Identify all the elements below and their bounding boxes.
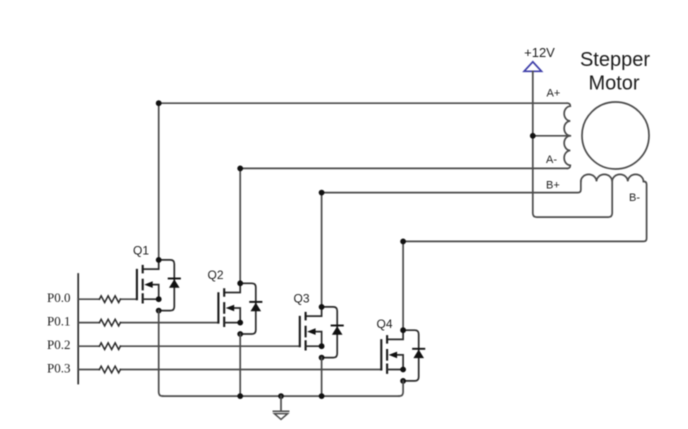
inductor winding A (stepper phase A) bbox=[564, 103, 570, 168]
wire: Q4 source to ground rail bbox=[399, 381, 403, 396]
wire: ground stub bbox=[280, 396, 282, 410]
transistor Q1 bbox=[137, 257, 180, 314]
svg-text:P0.3: P0.3 bbox=[47, 360, 70, 375]
wire: Q2 source to ground rail bbox=[239, 334, 241, 396]
node: +12V to A centre tap junction bbox=[530, 133, 536, 139]
node: B+ corner junction bbox=[319, 190, 325, 196]
node: A- corner junction bbox=[237, 166, 243, 172]
wire: P0.3 row bbox=[78, 369, 381, 371]
svg-text:B-: B- bbox=[629, 192, 640, 204]
svg-text:+12V: +12V bbox=[524, 45, 555, 60]
stepper motor body bbox=[582, 102, 649, 169]
inductor winding B (stepper phase B) bbox=[581, 174, 644, 181]
wire: Q1 source to ground rail bbox=[159, 311, 163, 397]
node: ground stub junction bbox=[278, 393, 284, 399]
wire: P0.1 row bbox=[78, 322, 218, 324]
svg-text:Q3: Q3 bbox=[294, 291, 310, 305]
+12V net wire: down, right along rail, up to winding B centre tap bbox=[533, 72, 612, 218]
+12V power arrow bbox=[524, 62, 541, 72]
ground bbox=[273, 411, 288, 419]
resistor R4 bbox=[99, 366, 120, 373]
svg-text:P0.0: P0.0 bbox=[47, 290, 70, 305]
svg-text:Q2: Q2 bbox=[208, 268, 224, 282]
node: A+ corner junction bbox=[156, 100, 162, 106]
svg-text:P0.1: P0.1 bbox=[47, 313, 70, 328]
wire: Q3 drain to B+ bbox=[322, 181, 581, 307]
svg-text:Stepper: Stepper bbox=[580, 49, 650, 71]
svg-text:Motor: Motor bbox=[588, 72, 639, 94]
resistor R3 bbox=[99, 343, 120, 350]
node: Q3 source junction bbox=[319, 393, 325, 399]
wire: P0.2 row bbox=[78, 345, 300, 347]
port bus bar P0 bbox=[77, 274, 79, 384]
svg-text:A-: A- bbox=[546, 154, 557, 166]
svg-text:A+: A+ bbox=[547, 88, 561, 100]
wire: Q3 source to ground rail bbox=[321, 358, 323, 397]
wire: ground rail bbox=[163, 395, 399, 397]
node: Q2 source junction bbox=[237, 393, 243, 399]
wire: B- down and left to Q4 drain bbox=[403, 181, 646, 330]
svg-text:B+: B+ bbox=[546, 180, 560, 192]
transistor Q4 bbox=[381, 327, 424, 384]
node: B- corner junction bbox=[400, 239, 406, 245]
wire: P0.0 row bbox=[78, 298, 137, 300]
svg-text:Q1: Q1 bbox=[133, 244, 149, 258]
wire: Q1 drain to A+ bbox=[159, 103, 568, 260]
resistor R2 bbox=[99, 319, 120, 326]
wire: Q2 drain to A- bbox=[240, 168, 567, 283]
wire: winding A centre tap bbox=[533, 135, 571, 137]
svg-text:P0.2: P0.2 bbox=[47, 337, 70, 352]
transistor Q2 bbox=[218, 280, 261, 337]
resistor R1 bbox=[99, 296, 120, 303]
svg-text:Q4: Q4 bbox=[377, 317, 393, 331]
transistor Q3 bbox=[300, 304, 343, 361]
